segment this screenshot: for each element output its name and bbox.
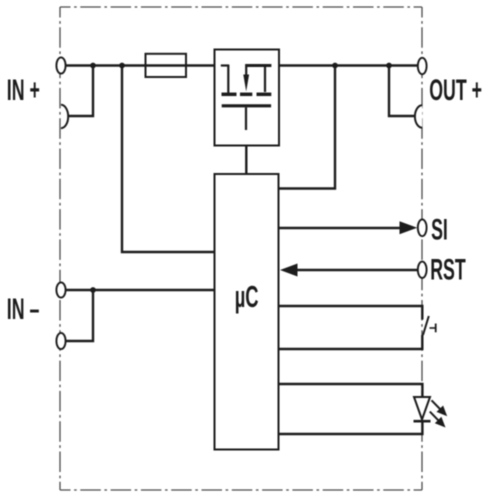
svg-text:SI: SI: [431, 214, 448, 247]
svg-text:µC: µC: [235, 280, 259, 314]
svg-text:IN –: IN –: [7, 293, 40, 326]
svg-text:OUT +: OUT +: [429, 75, 482, 108]
svg-text:IN +: IN +: [7, 75, 40, 108]
svg-text:RST: RST: [430, 254, 466, 287]
